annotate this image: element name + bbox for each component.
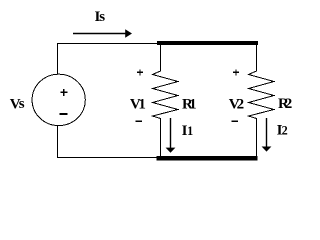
svg-text:2: 2 xyxy=(285,96,293,112)
svg-text:1: 1 xyxy=(189,96,197,112)
svg-text:s: s xyxy=(19,96,25,112)
svg-text:2: 2 xyxy=(282,124,288,138)
svg-text:s: s xyxy=(99,9,105,25)
svg-text:1: 1 xyxy=(187,124,193,138)
svg-text:2: 2 xyxy=(237,97,245,113)
svg-text:1: 1 xyxy=(138,97,146,113)
